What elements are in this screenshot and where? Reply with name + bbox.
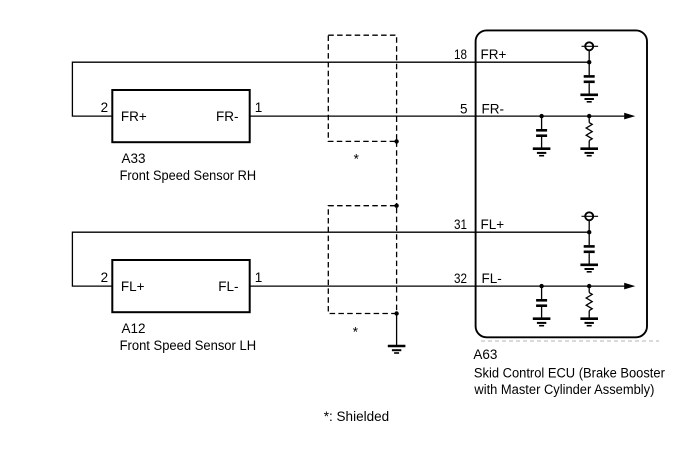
svg-text:18: 18	[454, 47, 467, 62]
svg-text:FR+: FR+	[481, 47, 507, 62]
svg-text:FR+: FR+	[121, 109, 147, 124]
svg-text:*: *	[354, 151, 360, 166]
svg-text:2: 2	[101, 270, 109, 285]
svg-text:FL+: FL+	[121, 279, 145, 294]
resistor on FL- line	[586, 286, 592, 319]
svg-text:5: 5	[460, 101, 468, 116]
terminal circle on FL+ line	[582, 212, 599, 232]
svg-text:Front Speed Sensor LH: Front Speed Sensor LH	[120, 338, 257, 353]
junction dot on FR- line (resistor tap)	[587, 114, 591, 118]
junction dot at FL shield top corner	[394, 204, 398, 208]
svg-text:2: 2	[101, 100, 109, 115]
junction dot on FR+ line	[587, 60, 591, 64]
svg-text:*: *	[353, 325, 359, 340]
svg-text:Skid Control ECU (Brake Booste: Skid Control ECU (Brake Booster	[474, 365, 665, 380]
svg-text:A33: A33	[122, 151, 146, 166]
capacitor on FR+ line	[584, 62, 595, 95]
svg-text:*: Shielded: *: Shielded	[324, 409, 389, 424]
connector A33 box	[112, 90, 249, 142]
svg-text:31: 31	[454, 217, 467, 232]
ground symbol below FR- resistor	[580, 149, 598, 156]
svg-text:Front Speed Sensor RH: Front Speed Sensor RH	[120, 168, 257, 183]
svg-text:with Master Cylinder Assembly): with Master Cylinder Assembly)	[473, 382, 654, 397]
svg-text:FR-: FR-	[216, 109, 239, 124]
junction dot on FL- line (capacitor tap)	[539, 284, 543, 288]
shield (dashed) around FR wires	[328, 35, 396, 141]
ground symbol below FR+ capacitor	[580, 95, 598, 102]
capacitor on FL+ line	[584, 232, 595, 265]
arrow FR- line termination	[624, 113, 635, 120]
ground symbol below FL+ capacitor	[580, 265, 598, 272]
svg-text:1: 1	[255, 270, 263, 285]
junction dot on FL- line (resistor tap)	[587, 284, 591, 288]
svg-text:FR-: FR-	[482, 101, 505, 116]
wire FR+ route from A33 pin 2 up and over to ECU pin 18	[72, 62, 589, 116]
svg-text:A63: A63	[473, 347, 497, 362]
shield (dashed) around FL wires	[328, 206, 396, 314]
svg-text:FL+: FL+	[481, 217, 505, 232]
svg-text:1: 1	[255, 100, 263, 115]
faint dotted rule under ECU bottom edge	[481, 340, 659, 342]
resistor on FR- line	[586, 116, 592, 149]
ground symbol below FL- capacitor	[533, 319, 551, 326]
capacitor on FR- line	[536, 116, 547, 149]
wire FR- from A33 pin 1 to ECU pin 5	[250, 115, 626, 117]
ground symbol for shield drain	[388, 346, 406, 353]
junction dot at FL shield bottom corner	[394, 311, 398, 315]
arrow FL- line termination	[624, 283, 635, 290]
terminal circle on FR+ line	[582, 42, 599, 62]
dashed shield drain wire between shields	[396, 141, 398, 205]
wire FL- from A12 pin 1 to ECU pin 32	[250, 285, 626, 287]
junction dot on FL+ line	[587, 230, 591, 234]
junction dot at FR shield bottom corner	[394, 139, 398, 143]
ground symbol below FL- resistor	[580, 319, 598, 326]
connector A12 box	[112, 260, 249, 312]
capacitor on FL- line	[536, 286, 547, 319]
svg-text:A12: A12	[122, 321, 146, 336]
wire shield drain to ground	[396, 314, 398, 347]
ECU A63 outline (rounded box)	[476, 30, 647, 337]
svg-text:32: 32	[454, 271, 467, 286]
svg-text:FL-: FL-	[218, 279, 238, 294]
junction dot on FR- line (capacitor tap)	[539, 114, 543, 118]
wire FL+ route from A12 pin 2 up and over to ECU pin 31	[72, 232, 589, 286]
svg-text:FL-: FL-	[482, 271, 502, 286]
ground symbol below FR- capacitor	[533, 149, 551, 156]
